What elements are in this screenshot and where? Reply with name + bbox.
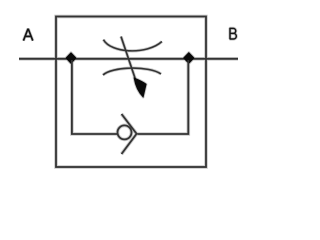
junction node left (diamond dot) — [66, 53, 76, 63]
check valve seat — [122, 114, 137, 154]
wire right branch down — [137, 60, 188, 134]
throttle upper arc — [103, 40, 161, 51]
check valve ball circle — [118, 125, 132, 139]
variable throttle arrowhead — [134, 78, 146, 97]
soft halo under-layer (anti-alias imitation) — [19, 17, 238, 168]
main flow line A to B — [19, 58, 238, 60]
throttle lower arc — [103, 68, 161, 75]
valve enclosure box — [56, 17, 206, 168]
variable throttle arrow shaft — [121, 37, 136, 82]
wire left branch down — [72, 60, 118, 134]
port label B — [230, 28, 237, 39]
junction node right (diamond dot) — [184, 53, 194, 64]
port label A — [23, 29, 32, 41]
dark core layer — [19, 17, 238, 168]
